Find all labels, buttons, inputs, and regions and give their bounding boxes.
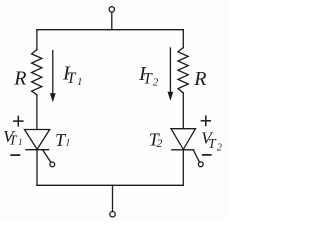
thyristor T1 gate circle [50,162,55,167]
minus sign (T1 cathode) [11,154,19,156]
plus sign (T2 anode) [201,116,210,125]
wire: left top vertical [36,30,38,50]
wire: right bottom vertical [182,150,184,186]
thyristor T2 gate circle [198,162,203,167]
svg-text:R: R [193,68,206,90]
thyristor T2 gate lead [194,150,200,162]
thyristor T2 triangle [171,129,196,150]
bottom terminal circle [110,212,115,217]
wire: bottom terminal stub [112,185,114,211]
thyristor T2 cathode bar [172,149,194,151]
minus sign (T2 cathode) [203,154,211,156]
plus sign (T1 anode) [14,116,23,125]
wire: right mid vertical [182,93,184,129]
svg-text:T1: T1 [55,130,70,150]
svg-text:VT1: VT1 [3,127,23,148]
wire: left bottom vertical [36,150,38,186]
svg-text:IT1: IT1 [62,63,82,88]
top terminal circle [109,7,114,12]
wire: bottom horizontal [37,184,183,186]
current arrow IT1 [50,51,56,103]
svg-text:T2: T2 [149,129,163,150]
current arrow IT2 [168,48,174,101]
wire: left mid vertical [36,95,38,130]
svg-text:VT2: VT2 [201,129,222,154]
resistor R1 (left) [32,50,42,95]
resistor R2 (right) [178,48,188,93]
thyristor T1 gate lead [43,150,51,162]
wire: top horizontal [37,29,183,31]
wire: top terminal stub [111,12,113,30]
thyristor T1 triangle [25,130,50,150]
svg-text:R: R [13,68,26,90]
svg-text:IT2: IT2 [138,63,159,88]
thyristor T1 cathode bar [26,149,49,151]
wire: right top vertical [182,30,184,48]
